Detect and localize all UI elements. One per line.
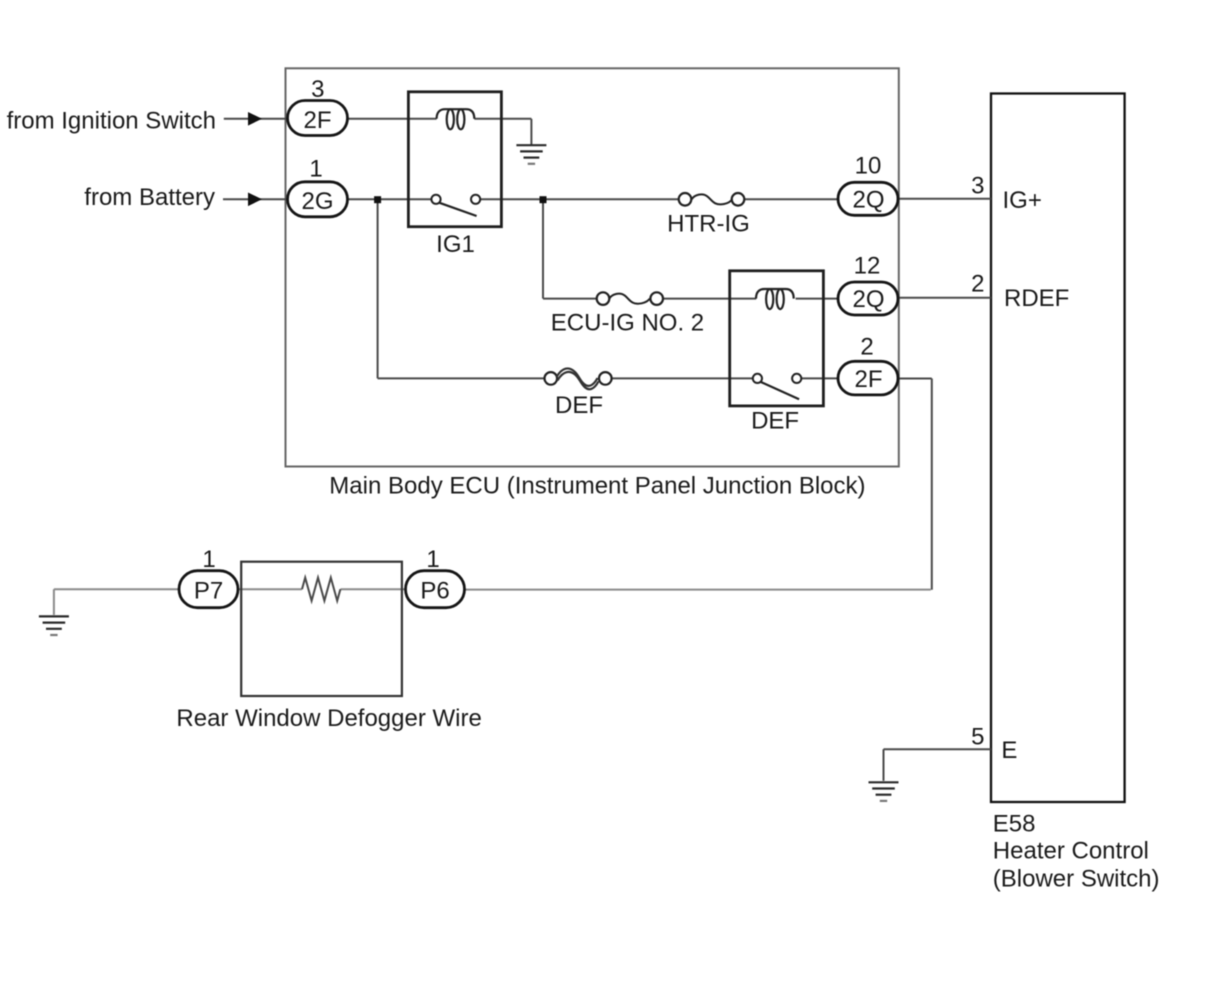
svg-text:IG+: IG+ xyxy=(1003,187,1042,214)
svg-text:2G: 2G xyxy=(301,188,333,215)
svg-text:3: 3 xyxy=(311,76,324,103)
svg-text:1: 1 xyxy=(202,546,215,573)
svg-text:HTR-IG: HTR-IG xyxy=(667,211,750,238)
svg-text:Heater Control: Heater Control xyxy=(993,838,1149,865)
svg-text:IG1: IG1 xyxy=(436,231,475,258)
svg-text:from Battery: from Battery xyxy=(84,184,215,211)
svg-text:3: 3 xyxy=(971,173,984,200)
svg-text:1: 1 xyxy=(309,156,322,183)
svg-text:RDEF: RDEF xyxy=(1004,285,1069,312)
svg-text:(Blower Switch): (Blower Switch) xyxy=(993,866,1160,893)
svg-text:P6: P6 xyxy=(420,578,449,605)
svg-text:E: E xyxy=(1001,737,1017,764)
svg-text:2Q: 2Q xyxy=(852,187,884,214)
svg-text:2: 2 xyxy=(860,334,873,361)
svg-text:E58: E58 xyxy=(993,811,1036,838)
svg-text:ECU-IG NO. 2: ECU-IG NO. 2 xyxy=(551,310,704,337)
svg-text:2: 2 xyxy=(971,271,984,298)
svg-text:2F: 2F xyxy=(303,107,331,134)
svg-text:DEF: DEF xyxy=(751,408,799,435)
svg-text:from Ignition Switch: from Ignition Switch xyxy=(7,108,216,135)
svg-text:5: 5 xyxy=(971,724,984,751)
svg-text:1: 1 xyxy=(426,546,439,573)
svg-text:10: 10 xyxy=(855,153,882,180)
svg-text:Main Body ECU (Instrument Pane: Main Body ECU (Instrument Panel Junction… xyxy=(329,473,865,500)
svg-text:P7: P7 xyxy=(194,578,223,605)
svg-text:Rear Window Defogger Wire: Rear Window Defogger Wire xyxy=(176,705,481,732)
svg-text:DEF: DEF xyxy=(555,392,603,419)
svg-text:2Q: 2Q xyxy=(852,286,884,313)
svg-text:2F: 2F xyxy=(854,366,882,393)
svg-text:12: 12 xyxy=(854,253,881,280)
